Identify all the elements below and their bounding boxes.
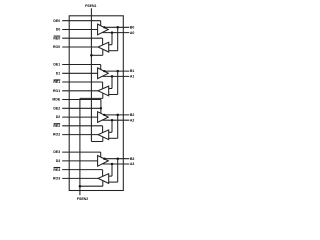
svg-text:A2: A2 — [130, 118, 135, 122]
svg-text:RE3: RE3 — [53, 168, 60, 172]
svg-text:A3: A3 — [130, 162, 135, 166]
svg-text:DE3: DE3 — [53, 150, 60, 154]
svg-text:FSEN2: FSEN2 — [77, 197, 88, 201]
svg-text:B0: B0 — [130, 25, 135, 29]
svg-text:D3: D3 — [56, 159, 61, 163]
svg-text:DE0: DE0 — [53, 19, 60, 23]
svg-text:DE2: DE2 — [53, 107, 60, 111]
svg-text:RE0: RE0 — [53, 36, 60, 40]
svg-text:A1: A1 — [130, 75, 135, 79]
svg-text:FSEN1: FSEN1 — [85, 4, 96, 8]
svg-text:B2: B2 — [130, 113, 135, 117]
svg-text:RO1: RO1 — [53, 89, 60, 93]
svg-text:DE1: DE1 — [53, 63, 60, 67]
svg-text:A0: A0 — [130, 31, 135, 35]
svg-text:RE2: RE2 — [53, 124, 60, 128]
svg-text:RE1: RE1 — [53, 80, 60, 84]
svg-text:RO0: RO0 — [53, 45, 60, 49]
svg-text:MDE: MDE — [52, 98, 60, 102]
svg-text:D1: D1 — [56, 71, 61, 75]
svg-text:D0: D0 — [56, 28, 61, 32]
svg-text:RO2: RO2 — [53, 133, 60, 137]
svg-text:B3: B3 — [130, 157, 135, 161]
svg-text:B1: B1 — [130, 69, 135, 73]
svg-text:D2: D2 — [56, 115, 61, 119]
svg-text:RO3: RO3 — [53, 177, 60, 181]
